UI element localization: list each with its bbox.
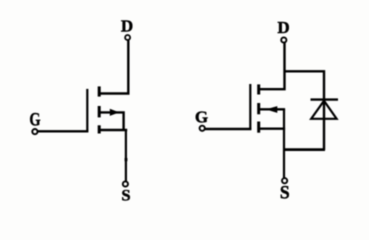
channel segment bottom (Q1 source region) <box>98 125 101 133</box>
wire source lead (Q1): down to S terminal <box>125 130 127 181</box>
body diode D1 cathode bar <box>311 98 339 100</box>
svg-text:G: G <box>29 111 40 131</box>
node S terminal circle (Q1) <box>123 181 128 186</box>
body diode D1 triangle (open outline, pointing up: anode at source side) <box>311 101 336 119</box>
wire source line (Q1): bottom segment right to source lead <box>100 129 127 131</box>
node D terminal circle (Q2) <box>281 37 286 42</box>
channel segment middle (Q1 substrate region) <box>98 106 101 117</box>
node G terminal circle (Q1) <box>32 129 37 134</box>
svg-text:D: D <box>277 18 289 37</box>
wire drain lead (Q1): from D terminal down, then left to channel <box>99 40 128 93</box>
substrate arrow (Q2, pointing left toward channel) <box>266 106 278 113</box>
wire drain lead (Q2): from D terminal down, then left to channel <box>259 43 285 89</box>
channel segment bottom (Q2 source region) <box>257 122 260 133</box>
wire gate lead (Q1): from G terminal to gate bar <box>38 130 88 132</box>
wire source lead (Q2): from substrate junction down to S terminal <box>283 109 285 177</box>
svg-text:S: S <box>280 183 290 204</box>
svg-text:G: G <box>195 107 208 126</box>
wire substrate connection (Q2): middle segment right to source lead <box>259 108 285 110</box>
channel segment top (Q1 drain region) <box>98 86 101 96</box>
gate electrode bar (Q1) <box>86 89 88 131</box>
channel segment top (Q2 drain region) <box>257 84 260 94</box>
junction blob on source lead (scan artifact) <box>125 158 128 161</box>
node S terminal circle (Q2) <box>282 178 287 183</box>
node G terminal circle (Q2) <box>200 126 205 131</box>
wire gate lead (Q2): from G terminal to gate bar <box>205 128 251 130</box>
wire source line (Q2): bottom segment right to source lead <box>259 127 285 129</box>
svg-text:S: S <box>121 188 130 205</box>
wire substrate connection (Q1): middle segment right, then down to source line <box>100 112 124 129</box>
wire body-diode bottom return: from diode down-left to source lead <box>283 148 325 151</box>
svg-text:D: D <box>121 17 133 36</box>
gate electrode bar (Q2) <box>249 84 251 129</box>
node D terminal circle (Q1) <box>125 35 130 40</box>
wire body-diode top branch: from drain lead right, then down to diode <box>285 71 325 150</box>
channel segment middle (Q2 substrate region) <box>257 103 260 114</box>
substrate arrow (Q1, pointing right away from channel) <box>110 109 119 116</box>
